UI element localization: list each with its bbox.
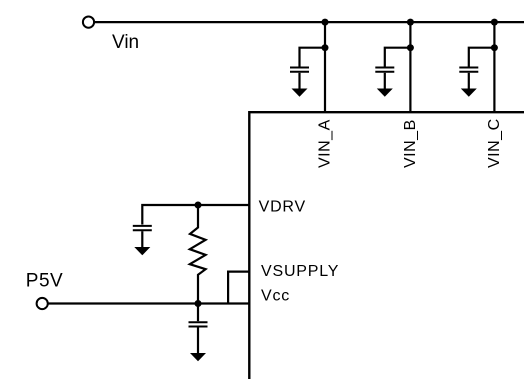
junction dot B cap: [407, 44, 414, 51]
junction dot P5V: [195, 300, 202, 307]
wire VIN_A drop: [324, 22, 326, 112]
wire VDRV net: [142, 205, 249, 225]
junction dot C top: [491, 19, 498, 26]
capacitor C_B: [375, 68, 394, 90]
ground C: [461, 89, 477, 97]
svg-text:Vcc: Vcc: [261, 288, 290, 305]
wire cap A stub: [300, 48, 326, 67]
junction dot C cap: [491, 44, 498, 51]
wire Vin bus: [95, 21, 524, 23]
capacitor C_P5V: [189, 305, 208, 354]
ground A: [292, 89, 308, 97]
resistor R1: [190, 205, 206, 304]
wire cap B stub: [385, 48, 411, 67]
capacitor C_C: [459, 68, 478, 90]
svg-text:VSUPPLY: VSUPPLY: [261, 263, 339, 280]
wire VIN_B drop: [409, 22, 411, 112]
wire cap C stub: [469, 48, 495, 67]
junction dot B top: [407, 19, 414, 26]
svg-text:VIN_C: VIN_C: [486, 118, 503, 168]
junction dot VDRV: [195, 202, 202, 209]
IC U1: [249, 112, 524, 379]
wire VIN_C drop: [493, 22, 495, 112]
terminal Vin: [83, 17, 94, 28]
capacitor C_VDRV: [133, 226, 152, 248]
svg-text:VIN_B: VIN_B: [402, 119, 419, 168]
ground B: [377, 89, 393, 97]
capacitor C_A: [290, 68, 309, 90]
svg-text:VIN_A: VIN_A: [317, 119, 334, 168]
svg-text:P5V: P5V: [26, 270, 63, 291]
svg-text:VDRV: VDRV: [259, 199, 306, 216]
wire VSUPPLY stub: [228, 272, 249, 304]
ground P5V cap: [190, 353, 206, 361]
ground VDRV cap: [134, 247, 150, 255]
svg-text:Vin: Vin: [112, 32, 139, 53]
junction dot A cap: [322, 44, 329, 51]
wire P5V net: [48, 302, 249, 304]
terminal P5V: [37, 298, 48, 309]
junction dot A top: [322, 19, 329, 26]
